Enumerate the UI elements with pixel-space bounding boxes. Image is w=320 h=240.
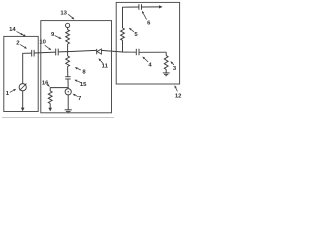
- wire corner to resistor 3: [165, 52, 167, 55]
- svg-text:11: 11: [102, 64, 109, 70]
- leader arrow for 15: [77, 81, 81, 83]
- leader arrow for 12: [176, 88, 178, 92]
- terminal circle above resistor 9: [66, 23, 70, 27]
- resistor R8: [66, 56, 70, 67]
- wire bus right segment into right box: [101, 50, 135, 52]
- capacitor C6: [138, 4, 140, 10]
- leader arrow for 6: [143, 13, 146, 19]
- wire resistor 16 down: [49, 104, 51, 109]
- leader arrow for 8: [77, 68, 81, 70]
- svg-text:6: 6: [147, 20, 151, 26]
- resistor R9: [66, 30, 70, 44]
- svg-text:3: 3: [173, 66, 177, 72]
- leader arrow for 3: [172, 63, 174, 65]
- leader arrow for 14: [17, 31, 22, 34]
- leader arrow for 9: [55, 36, 59, 38]
- wire bus middle segment: [59, 50, 97, 52]
- capacitor C2: [31, 50, 33, 57]
- resistor R3: [164, 56, 168, 70]
- leader arrow for 5: [131, 30, 134, 32]
- svg-text:12: 12: [175, 94, 182, 100]
- middle enclosure box 13: [41, 21, 112, 113]
- wire resistor 3 to ground: [165, 70, 167, 73]
- down arrow terminal under resistor 16: [48, 108, 52, 112]
- leader arrow for 16: [46, 84, 48, 86]
- leader arrow for 2: [20, 45, 24, 48]
- faint scan line bottom: [2, 117, 114, 119]
- source circle 1: [19, 84, 26, 91]
- svg-text:7: 7: [78, 96, 82, 102]
- meter circle 7: [65, 89, 71, 95]
- svg-text:14: 14: [9, 27, 16, 33]
- leader arrow for 11: [100, 60, 103, 63]
- wire circle 7 to ground: [67, 95, 69, 110]
- svg-text:4: 4: [148, 62, 152, 68]
- resistor R16: [48, 91, 52, 104]
- ground under resistor 3: [163, 72, 170, 74]
- wire resistor 9 to bus junction to resistor 8: [67, 44, 69, 56]
- wire resistor 8 to capacitor 15: [67, 67, 69, 77]
- wire resistor 5 up and top wire with output arrow: [123, 7, 139, 28]
- tee wire to left branch: [50, 88, 68, 91]
- right box inner vertical wire: [122, 40, 124, 52]
- left box vertical wire: [22, 53, 24, 83]
- leader arrow for 1: [10, 90, 14, 92]
- svg-text:1: 1: [6, 91, 10, 97]
- leader arrow for 13: [68, 14, 72, 18]
- leader arrow for 10: [45, 45, 49, 48]
- junction dot on arrow 14: [23, 34, 25, 36]
- resistor R5: [121, 28, 125, 40]
- wire terminal to resistor 9: [67, 28, 69, 30]
- down arrow terminal under circle 1: [21, 108, 25, 112]
- svg-text:13: 13: [60, 10, 67, 16]
- enclosure box 14 (left): [4, 36, 38, 111]
- svg-text:5: 5: [134, 32, 138, 38]
- svg-text:9: 9: [51, 32, 55, 38]
- diode D11: [96, 49, 98, 54]
- svg-text:8: 8: [82, 69, 86, 75]
- capacitor C10: [55, 49, 57, 56]
- svg-text:10: 10: [39, 40, 46, 46]
- capacitor C15 (horizontal plates): [65, 76, 70, 78]
- leader arrow for 7: [75, 95, 78, 97]
- leader arrow for 4: [144, 58, 148, 62]
- svg-text:15: 15: [80, 82, 87, 88]
- svg-text:2: 2: [16, 40, 20, 46]
- wire capacitor 15 to circle 7: [67, 79, 69, 88]
- right enclosure box 12: [116, 2, 179, 84]
- ground under circle 7: [65, 109, 72, 111]
- wire bus left segment (cap2 to cap10): [23, 52, 31, 54]
- capacitor C4: [135, 49, 137, 55]
- wire below circle 1: [22, 91, 24, 109]
